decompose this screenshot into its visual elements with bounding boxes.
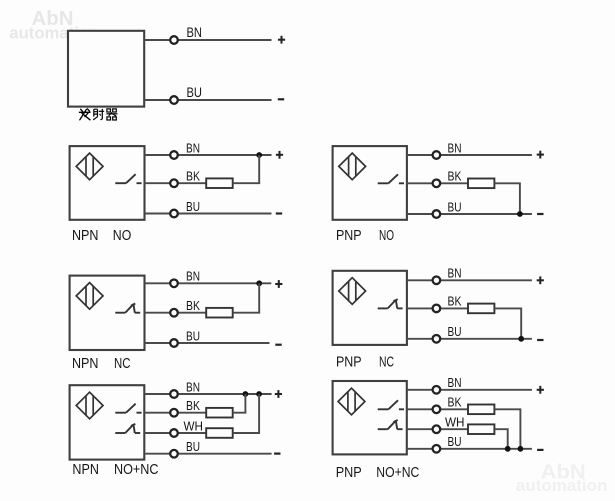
wire BN (transmitter) — [144, 39, 271, 41]
plus supply (PNP NC) — [537, 276, 544, 284]
wire BU (PNP NO+NC) — [407, 448, 532, 450]
wire BK resistor to corner down (PNP NO+NC) — [494, 409, 520, 449]
wire BU (NPN NC) — [145, 342, 270, 344]
minus supply (PNP NC) — [537, 339, 543, 341]
wire BU (transmitter) — [144, 99, 271, 101]
watermark top-left AbN — [9, 8, 99, 42]
sensor box NPN NC — [70, 276, 145, 350]
junction dot on BU (PNP NC) — [518, 336, 524, 342]
svg-text:BN: BN — [186, 269, 200, 284]
terminal circle BN (NPN NC) — [170, 280, 178, 288]
wire WH from box to resistor (NPN NO+NC) — [144, 432, 206, 434]
svg-text:BK: BK — [448, 169, 462, 184]
svg-text:BK: BK — [186, 169, 200, 184]
wire BN (NPN NO+NC) — [144, 393, 271, 395]
terminal circle BN (PNP NO) — [433, 151, 441, 159]
terminal circle BK (NPN NC) — [170, 309, 178, 317]
wire WH from box to resistor (PNP NO+NC) — [407, 428, 468, 430]
svg-text:NPN: NPN — [72, 356, 99, 372]
svg-text:NC: NC — [114, 356, 131, 372]
terminal circle BN (transmitter) — [170, 36, 178, 44]
sensor box NPN NO+NC — [70, 385, 145, 459]
svg-text:BN: BN — [187, 25, 203, 40]
NC contact switch (PNP NC) — [378, 299, 403, 308]
resistor load WH (PNP NO+NC) — [468, 424, 494, 434]
svg-text:BN: BN — [448, 266, 462, 281]
terminal circle BN (NPN NO+NC) — [170, 390, 178, 398]
terminal circle BK (PNP NO+NC) — [433, 406, 441, 414]
junction dot near on BU (PNP NO+NC) — [505, 446, 511, 452]
plus supply (NPN NC) — [275, 280, 282, 288]
resistor load BK (NPN NO+NC) — [206, 408, 233, 418]
wire BK from box to resistor (NPN NO) — [145, 182, 207, 184]
minus supply (PNP NO) — [537, 213, 543, 215]
plus supply (NPN NO) — [276, 151, 283, 159]
NC contact switch (NPN NO+NC) — [115, 424, 140, 433]
junction dot far on BU (PNP NO+NC) — [518, 446, 524, 452]
wire BN (PNP NO) — [407, 154, 532, 156]
NO contact switch (PNP NO) — [378, 174, 404, 183]
minus supply (NPN NO+NC) — [274, 453, 280, 455]
svg-text:BN: BN — [186, 379, 200, 394]
NO contact switch (PNP NO+NC) — [378, 400, 404, 409]
wire BK from box to resistor (PNP NO+NC) — [407, 408, 468, 410]
wire BK from box to resistor (NPN NC) — [145, 312, 207, 314]
terminal circle WH (NPN NO+NC) — [170, 429, 178, 437]
wire BU (PNP NC) — [406, 338, 532, 340]
svg-text:BK: BK — [448, 294, 462, 309]
wire BU (NPN NO+NC) — [144, 453, 271, 455]
svg-text:NPN: NPN — [72, 228, 99, 244]
junction dot on BU (PNP NO) — [517, 211, 523, 217]
junction dot 2 on BN (NPN NO+NC) — [256, 391, 262, 397]
terminal circle BU (PNP NO+NC) — [433, 445, 441, 453]
NO contact switch (NPN NO+NC) — [115, 404, 141, 413]
resistor load BK (PNP NO+NC) — [468, 405, 494, 415]
sensor optics diamond (NPN NO) — [76, 153, 103, 180]
label 发射器 (glyph strokes) — [79, 109, 90, 120]
wire BU (PNP NO) — [407, 213, 532, 215]
sensor optics diamond (PNP NC) — [339, 278, 366, 305]
terminal circle BU (NPN NC) — [170, 339, 178, 347]
sensor optics diamond (NPN NO+NC) — [76, 392, 103, 419]
terminal circle BU (NPN NO+NC) — [170, 450, 178, 458]
resistor load (NPN NC) — [206, 308, 233, 318]
plus supply (PNP NO+NC) — [537, 386, 544, 394]
terminal circle BN (PNP NO+NC) — [433, 386, 441, 394]
svg-text:BK: BK — [186, 298, 200, 313]
resistor load (NPN NO) — [206, 178, 233, 188]
svg-text:WH: WH — [445, 415, 465, 430]
svg-text:PNP: PNP — [336, 228, 362, 244]
svg-text:NO+NC: NO+NC — [114, 462, 159, 478]
resistor load (PNP NC) — [468, 304, 494, 314]
NO contact switch (NPN NO) — [115, 174, 141, 183]
wire BN (PNP NO+NC) — [407, 389, 532, 391]
wire resistor to corner (NPN NC) — [233, 283, 260, 312]
svg-text:PNP: PNP — [336, 354, 362, 370]
svg-text:BU: BU — [448, 199, 462, 214]
terminal circle BU (transmitter) — [170, 96, 178, 104]
sensor box NPN NO — [70, 146, 145, 220]
sensor box PNP NO — [333, 146, 407, 220]
wire resistor to corner down (PNP NC) — [494, 308, 521, 338]
svg-text:PNP: PNP — [336, 465, 362, 481]
wire BN (PNP NC) — [406, 279, 532, 281]
watermark bottom-right AbN — [516, 462, 608, 496]
plus supply (PNP NO) — [537, 151, 544, 159]
junction dot on BN (NPN NO) — [256, 152, 262, 158]
wire BK from box to resistor (NPN NO+NC) — [144, 412, 206, 414]
wire BK resistor to corner up (NPN NO+NC) — [233, 394, 246, 413]
svg-text:BU: BU — [187, 85, 203, 100]
sensor optics diamond (NPN NC) — [76, 283, 103, 310]
junction dot 1 on BN (NPN NO+NC) — [243, 391, 249, 397]
sensor optics diamond (PNP NO+NC) — [338, 388, 365, 415]
wire WH resistor to corner up (NPN NO+NC) — [233, 394, 259, 433]
terminal circle BU (PNP NO) — [433, 210, 441, 218]
minus supply (transmitter) — [278, 98, 284, 100]
svg-text:BU: BU — [448, 434, 462, 449]
terminal circle BU (NPN NO) — [170, 210, 178, 218]
wire BK from box to resistor (PNP NC) — [406, 307, 468, 309]
svg-text:BK: BK — [448, 395, 462, 410]
junction dot on BN (NPN NC) — [256, 280, 262, 286]
NC contact switch (PNP NO+NC) — [378, 420, 403, 429]
sensor box PNP NO+NC — [333, 381, 407, 454]
svg-text:WH: WH — [184, 418, 204, 433]
terminal circle BK (NPN NO+NC) — [170, 409, 178, 417]
svg-text:BU: BU — [186, 439, 200, 454]
sensor box PNP NC — [333, 271, 407, 345]
terminal circle BK (NPN NO) — [170, 179, 178, 187]
wire BN (NPN NO) — [145, 154, 272, 156]
terminal circle WH (PNP NO+NC) — [433, 425, 441, 433]
terminal circle BN (NPN NO) — [170, 151, 178, 159]
wire resistor to corner (NPN NO) — [233, 155, 260, 183]
svg-text:NO: NO — [113, 228, 132, 244]
plus supply (transmitter) — [278, 36, 285, 44]
svg-text:NC: NC — [379, 354, 394, 370]
minus supply (PNP NO+NC) — [537, 449, 543, 451]
wire BU (NPN NO) — [145, 213, 272, 215]
svg-text:BN: BN — [186, 140, 200, 155]
svg-text:NO: NO — [379, 228, 394, 244]
wire BN (NPN NC) — [145, 282, 272, 284]
NC contact switch (NPN NC) — [115, 304, 140, 313]
sensor optics diamond (PNP NO) — [339, 153, 366, 180]
wire WH resistor to corner down (PNP NO+NC) — [494, 429, 507, 449]
terminal circle BK (PNP NO) — [433, 180, 441, 188]
svg-text:BK: BK — [186, 398, 200, 413]
resistor load WH (NPN NO+NC) — [206, 428, 233, 438]
resistor load (PNP NO) — [468, 179, 494, 189]
terminal circle BN (PNP NC) — [433, 277, 441, 285]
svg-text:NO+NC: NO+NC — [376, 465, 419, 481]
svg-text:BU: BU — [186, 199, 200, 214]
transmitter box 发射器 — [68, 31, 144, 107]
minus supply (NPN NO) — [276, 213, 282, 215]
plus supply (NPN NO+NC) — [275, 390, 282, 398]
wire BK from box to resistor (PNP NO) — [407, 182, 468, 184]
svg-text:BN: BN — [448, 375, 462, 390]
svg-text:automation: automation — [516, 476, 608, 495]
terminal circle BK (PNP NC) — [433, 305, 441, 313]
svg-text:BU: BU — [186, 328, 200, 343]
minus supply (NPN NC) — [275, 344, 281, 346]
wire resistor to corner down (PNP NO) — [494, 183, 520, 214]
svg-text:BU: BU — [448, 324, 462, 339]
terminal circle BU (PNP NC) — [433, 335, 441, 343]
svg-text:BN: BN — [448, 140, 462, 155]
svg-text:NPN: NPN — [72, 462, 99, 478]
